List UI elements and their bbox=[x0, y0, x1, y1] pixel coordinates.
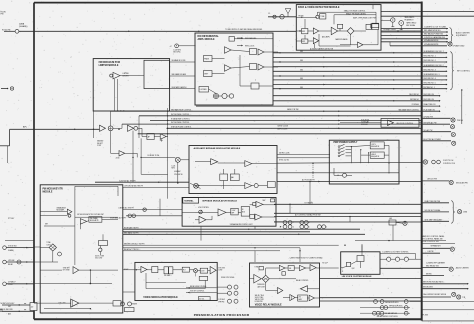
svg-text:RECORD NO. 3: RECORD NO. 3 bbox=[424, 69, 436, 71]
svg-text:SBD: SBD bbox=[300, 87, 303, 89]
svg-text:FILT: FILT bbox=[183, 270, 186, 272]
svg-text:SUBCARRIER NO. 3: SUBCARRIER NO. 3 bbox=[424, 73, 440, 76]
svg-text:RETIME NO: RETIME NO bbox=[410, 99, 420, 101]
svg-text:VOICE RECORD: VOICE RECORD bbox=[1, 309, 14, 311]
svg-text:SBD BACKUP WIDE SIG: SBD BACKUP WIDE SIG bbox=[424, 33, 444, 36]
svg-text:VOICE MODULATOR MODULE: VOICE MODULATOR MODULE bbox=[143, 296, 178, 299]
svg-text:EQUIPMENT: EQUIPMENT bbox=[456, 35, 468, 37]
svg-text:RECORD NO. 4: RECORD NO. 4 bbox=[424, 78, 436, 80]
svg-text:SBD: SBD bbox=[300, 51, 303, 53]
svg-text:SBD: SBD bbox=[300, 60, 303, 62]
svg-text:1 KHZ: 1 KHZ bbox=[232, 210, 236, 212]
svg-text:64KHZ 1,024K: 64KHZ 1,024K bbox=[278, 125, 289, 127]
svg-text:MODE CONTROL SIG: MODE CONTROL SIG bbox=[422, 241, 440, 243]
svg-text:UPDATA SERVICE: UPDATA SERVICE bbox=[424, 39, 439, 42]
svg-text:LIM VOICE CLIPPER MODULE: LIM VOICE CLIPPER MODULE bbox=[342, 276, 372, 278]
svg-text:BIO SYNC: BIO SYNC bbox=[173, 52, 181, 54]
svg-text:FM MODU/LIM PCM: FM MODU/LIM PCM bbox=[99, 62, 120, 64]
svg-text:SBD MAIN WIDE SIG: SBD MAIN WIDE SIG bbox=[424, 29, 441, 32]
svg-text:LOW CONTROL: LOW CONTROL bbox=[198, 207, 209, 209]
svg-text:PREMODULATION PROCESSOR: PREMODULATION PROCESSOR bbox=[194, 313, 250, 317]
svg-text:SUBCARRIER OSC NO. 2: SUBCARRIER OSC NO. 2 bbox=[424, 64, 444, 67]
svg-text:PMP POWER SUPPLY: PMP POWER SUPPLY bbox=[334, 142, 358, 144]
svg-text:2: 2 bbox=[293, 227, 294, 229]
svg-text:SUBCARRIER OSC NO. 1: SUBCARRIER OSC NO. 1 bbox=[424, 50, 444, 53]
svg-text:J2 M4: J2 M4 bbox=[116, 158, 120, 160]
svg-text:NORMAL: NORMAL bbox=[184, 200, 194, 203]
svg-text:CONTROL SYS: CONTROL SYS bbox=[443, 163, 456, 165]
svg-text:MOD: MOD bbox=[242, 211, 245, 213]
svg-text:BPF: BPF bbox=[302, 31, 305, 33]
svg-text:1250 KHZ SE: 1250 KHZ SE bbox=[174, 174, 183, 176]
svg-text:BIPHASE MODULATOR MODULE: BIPHASE MODULATOR MODULE bbox=[203, 200, 238, 203]
svg-text:UPDATE CMD: UPDATE CMD bbox=[453, 44, 465, 47]
svg-text:KEY CONTROL: KEY CONTROL bbox=[457, 70, 470, 72]
svg-text:1.024 MHZ: 1.024 MHZ bbox=[173, 49, 181, 51]
svg-text:CALL/INTERCOM NET MODE: CALL/INTERCOM NET MODE bbox=[423, 293, 447, 296]
svg-text:MODULE: MODULE bbox=[43, 192, 53, 194]
svg-text:DIO DIFFERENTIAL: DIO DIFFERENTIAL bbox=[198, 35, 220, 38]
svg-text:1,024: 1,024 bbox=[172, 166, 176, 168]
svg-text:TONE: TONE bbox=[46, 242, 50, 244]
svg-text:HIGH V: HIGH V bbox=[371, 154, 376, 156]
svg-text:SELECT: SELECT bbox=[97, 143, 103, 145]
svg-text:APC: APC bbox=[23, 125, 28, 128]
svg-text:KEY: KEY bbox=[45, 223, 48, 225]
svg-text:RECORD NO: RECORD NO bbox=[409, 94, 420, 96]
svg-text:1.024MHZ CLOCK NEXT CONTROL: 1.024MHZ CLOCK NEXT CONTROL bbox=[382, 251, 408, 253]
svg-text:IM TDM WIDE CONTROL: IM TDM WIDE CONTROL bbox=[171, 114, 190, 116]
svg-text:UPLINK PW: UPLINK PW bbox=[424, 116, 434, 118]
svg-text:LIMITED: LIMITED bbox=[123, 73, 130, 75]
svg-text:CLIP: CLIP bbox=[352, 268, 355, 270]
svg-text:NETWORK ROUND INTLK: NETWORK ROUND INTLK bbox=[423, 281, 444, 283]
svg-text:J2: J2 bbox=[342, 271, 344, 273]
svg-text:SYS TONE: SYS TONE bbox=[63, 270, 70, 272]
svg-text:RECORD NO. 5: RECORD NO. 5 bbox=[424, 83, 436, 85]
svg-text:7: 7 bbox=[293, 222, 294, 224]
svg-text:RECORD ON: RECORD ON bbox=[424, 99, 435, 101]
svg-text:MODULAR PW: MODULAR PW bbox=[456, 182, 468, 185]
svg-text:SITE SHIFT REQUEST: SITE SHIFT REQUEST bbox=[425, 219, 443, 221]
svg-text:CONT: CONT bbox=[201, 270, 205, 272]
svg-text:J22: J22 bbox=[31, 307, 34, 309]
svg-text:REAL TIME ON: REAL TIME ON bbox=[424, 103, 437, 106]
svg-text:+2: +2 bbox=[170, 46, 172, 48]
svg-text:NORM VOICE KEY: NORM VOICE KEY bbox=[1, 303, 16, 305]
svg-text:SBD: SBD bbox=[300, 78, 303, 80]
svg-text:TONE KEY: TONE KEY bbox=[63, 267, 70, 269]
svg-text:UPLINK: UPLINK bbox=[8, 260, 15, 262]
svg-text:SBD: SBD bbox=[300, 70, 303, 72]
svg-text:AMPL MODULE: AMPL MODULE bbox=[198, 38, 216, 41]
svg-text:CONT: CONT bbox=[46, 244, 50, 246]
svg-text:TONE: TONE bbox=[255, 267, 259, 269]
svg-text:VOICE RELAY MODULE: VOICE RELAY MODULE bbox=[255, 304, 282, 307]
svg-text:OSC CONT: OSC CONT bbox=[95, 258, 102, 260]
svg-text:ST TIM TIM: ST TIM TIM bbox=[305, 202, 314, 204]
svg-text:LIM VOICE CONTROL: LIM VOICE CONTROL bbox=[396, 123, 413, 125]
svg-text:VHF/AM KEY: VHF/AM KEY bbox=[431, 245, 442, 248]
svg-text:VOICE BU: VOICE BU bbox=[8, 245, 17, 247]
svg-text:ELECTRICAL POWER: ELECTRICAL POWER bbox=[424, 138, 442, 141]
svg-text:PRN CLOCK: PRN CLOCK bbox=[245, 45, 255, 47]
svg-text:5: 5 bbox=[309, 227, 310, 229]
svg-text:64KHZ 1,024K: 64KHZ 1,024K bbox=[279, 152, 290, 154]
svg-text:NRZ: NRZ bbox=[263, 200, 266, 202]
svg-text:CONT: CONT bbox=[218, 270, 222, 272]
svg-text:VOICE SIG: VOICE SIG bbox=[361, 119, 370, 121]
svg-text:500 KC TONE: 500 KC TONE bbox=[95, 255, 104, 257]
svg-text:CONTROL DATA WIDE SIG: CONTROL DATA WIDE SIG bbox=[424, 36, 446, 39]
svg-text:CSM: CSM bbox=[463, 212, 467, 214]
svg-text:VHF RLY PWR: VHF RLY PWR bbox=[255, 299, 264, 301]
svg-text:S/S RE SET SIGNAL: S/S RE SET SIGNAL bbox=[425, 209, 441, 212]
svg-text:KEY: KEY bbox=[8, 306, 11, 308]
svg-text:RETURN AC PW: RETURN AC PW bbox=[424, 121, 437, 124]
svg-text:AUDIO CENTER: AUDIO CENTER bbox=[456, 31, 470, 34]
svg-text:VHF PM: VHF PM bbox=[218, 301, 224, 303]
svg-text:MODULE: MODULE bbox=[361, 124, 368, 126]
svg-text:LIM PM: LIM PM bbox=[428, 251, 434, 253]
svg-text:KEYED: KEYED bbox=[426, 274, 433, 276]
svg-text:AUXILIARY BIPHASE MODULATOR: AUXILIARY BIPHASE MODULATOR MODULE bbox=[194, 147, 241, 150]
svg-text:(S-BAND): (S-BAND) bbox=[19, 25, 28, 28]
svg-text:VOICE: VOICE bbox=[8, 284, 13, 286]
svg-text:PL 2MS: PL 2MS bbox=[423, 315, 428, 317]
svg-text:PSE NB: PSE NB bbox=[457, 120, 463, 122]
svg-text:6: 6 bbox=[326, 227, 327, 229]
svg-text:UPDATA SERVICE: UPDATA SERVICE bbox=[424, 43, 439, 46]
svg-text:LOW V: LOW V bbox=[371, 144, 376, 146]
svg-text:RETIME NO. 1: RETIME NO. 1 bbox=[424, 87, 435, 89]
svg-text:TO CLIP: TO CLIP bbox=[322, 262, 328, 264]
svg-text:PTT KEY: PTT KEY bbox=[8, 218, 14, 220]
svg-text:1.024MHZ TIMING: 1.024MHZ TIMING bbox=[383, 29, 396, 31]
svg-text:SHIFT: SHIFT bbox=[204, 73, 208, 75]
svg-text:BPF: BPF bbox=[232, 212, 235, 214]
svg-text:RECORD ON: RECORD ON bbox=[424, 94, 435, 96]
svg-text:TONE: TONE bbox=[320, 16, 324, 18]
svg-text:SYNC 512 KC: SYNC 512 KC bbox=[279, 160, 290, 162]
svg-text:S/C VOL: S/C VOL bbox=[199, 298, 204, 300]
svg-text:CONT: CONT bbox=[97, 145, 101, 147]
svg-text:RECORD NO. 1: RECORD NO. 1 bbox=[424, 56, 436, 58]
svg-text:4,096MHZ: 4,096MHZ bbox=[174, 171, 181, 173]
svg-text:S/G AC PW: S/G AC PW bbox=[424, 129, 433, 132]
svg-text:DATA & VOICE DETECTOR MODULE: DATA & VOICE DETECTOR MODULE bbox=[298, 6, 340, 9]
svg-text:PM MODU/KEY/TR: PM MODU/KEY/TR bbox=[43, 189, 64, 191]
svg-text:POS/NEG: POS/NEG bbox=[412, 104, 420, 106]
svg-text:1.25 MHZ: 1.25 MHZ bbox=[218, 299, 225, 301]
svg-text:DOWN V: DOWN V bbox=[8, 282, 16, 284]
svg-text:PCM TIME ON: PCM TIME ON bbox=[424, 109, 436, 111]
svg-text:PM: PM bbox=[1, 14, 4, 16]
svg-text:AUDIO CENTER: AUDIO CENTER bbox=[456, 267, 470, 270]
svg-text:REAL TIME RE PSE: REAL TIME RE PSE bbox=[425, 200, 441, 203]
svg-text:LIMITER MODULE: LIMITER MODULE bbox=[99, 65, 119, 67]
svg-text:VOX KEY CONTROL: VOX KEY CONTROL bbox=[190, 291, 204, 293]
svg-text:1.024MHZ CLOCK TO DATA: 1.024MHZ CLOCK TO DATA bbox=[424, 26, 447, 29]
svg-text:WIDE CONT LEVEL: WIDE CONT LEVEL bbox=[221, 277, 235, 279]
svg-text:ATS DO PW: ATS DO PW bbox=[428, 178, 438, 181]
svg-text:WIRELESS: WIRELESS bbox=[257, 284, 264, 286]
svg-text:LIM: LIM bbox=[299, 297, 301, 299]
svg-text:MHZ: MHZ bbox=[172, 168, 175, 170]
svg-text:IM TDM WIDE CONTROL: IM TDM WIDE CONTROL bbox=[171, 122, 190, 124]
svg-text:VOX SYN: VOX SYN bbox=[218, 268, 225, 270]
svg-text:RECORD NO. 2: RECORD NO. 2 bbox=[424, 60, 436, 62]
svg-text:DOWN PWR: DOWN PWR bbox=[255, 301, 263, 303]
svg-text:MODE A SIG: MODE A SIG bbox=[423, 286, 434, 289]
svg-text:4: 4 bbox=[309, 222, 310, 224]
svg-text:2: 2 bbox=[274, 17, 275, 19]
svg-text:BPF: BPF bbox=[302, 41, 305, 43]
svg-text:SI GM MK TK PH: SI GM MK TK PH bbox=[147, 155, 159, 157]
svg-text:SBD RELAY SIG: SBD RELAY SIG bbox=[426, 264, 439, 267]
svg-text:1.25MHZ VHF CARRIER: 1.25MHZ VHF CARRIER bbox=[426, 262, 446, 265]
